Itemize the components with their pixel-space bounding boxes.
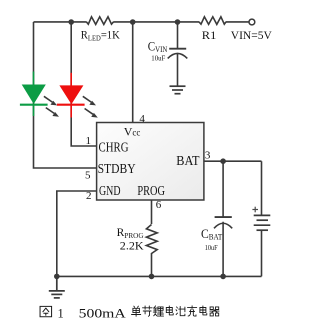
node junction CVIN [175, 19, 181, 25]
LED D2 light arrows [83, 96, 96, 105]
LED D1 light arrows [44, 96, 57, 105]
svg-text:500mA: 500mA [79, 307, 126, 321]
svg-text:2: 2 [86, 190, 92, 202]
node bottom-left junction [54, 274, 60, 280]
svg-text:3: 3 [205, 150, 211, 162]
caption 图 glyph [40, 306, 52, 316]
svg-text:GND: GND [99, 184, 121, 199]
svg-text:R1: R1 [202, 28, 217, 42]
caption 锂 glyph [153, 306, 163, 316]
svg-text:2.2K: 2.2K [120, 239, 144, 253]
wire green LED branch to STDBY [34, 22, 97, 168]
ground under CVIN [170, 86, 186, 94]
wire red LED branch to CHRG [71, 22, 96, 146]
node BAT junction [220, 158, 226, 164]
wire PROG pin 6 stem [151, 200, 153, 276]
caption 电 glyph [166, 306, 173, 315]
caption 池 glyph [176, 306, 185, 315]
svg-text:10uF: 10uF [205, 244, 218, 252]
svg-text:RLED=1K: RLED=1K [81, 27, 120, 42]
wire bottom rail [57, 275, 262, 277]
svg-text:1: 1 [58, 307, 64, 321]
svg-text:CVIN: CVIN [148, 39, 168, 55]
battery plus sign [252, 207, 258, 213]
node RPROG bottom junction [149, 274, 155, 280]
IC U1 box [97, 123, 204, 201]
resistor RPROG [146, 225, 157, 254]
capacitor CVIN plates [169, 48, 186, 50]
caption 单 glyph [132, 306, 141, 316]
caption 器 glyph [210, 307, 219, 316]
caption 节 glyph [143, 306, 153, 316]
node junction red LED [68, 19, 74, 25]
svg-text:VIN=5V: VIN=5V [231, 28, 272, 42]
svg-text:STDBY: STDBY [98, 162, 136, 177]
wire Vcc pin 4 [132, 22, 134, 123]
caption 电 glyph (second) [200, 306, 207, 315]
svg-text:CHRG: CHRG [99, 141, 129, 156]
ground bottom-left [49, 276, 65, 298]
node CBAT bottom junction [220, 274, 226, 280]
capacitor CBAT plates [215, 216, 232, 218]
svg-text:1: 1 [86, 135, 92, 147]
wire BAT pin 3 [204, 160, 262, 162]
svg-text:Vcc: Vcc [124, 124, 141, 138]
resistor RLED [86, 17, 113, 25]
svg-text:CBAT: CBAT [201, 226, 222, 242]
wire CVIN stem [177, 22, 179, 86]
svg-text:4: 4 [139, 113, 145, 125]
wire battery branch [261, 161, 263, 276]
node junction Vcc [130, 19, 136, 25]
caption 充 glyph [188, 306, 197, 316]
svg-text:BAT: BAT [176, 154, 200, 169]
svg-text:10uF: 10uF [151, 55, 165, 63]
capacitor CBAT stem [222, 161, 224, 276]
terminal VIN=5V circle [249, 19, 255, 25]
battery BT1 [254, 215, 271, 230]
svg-text:6: 6 [156, 199, 162, 211]
LED D2 red [57, 73, 85, 118]
wire GND pin 2 [57, 191, 97, 276]
wire top rail [34, 21, 250, 23]
resistor R1 [199, 17, 226, 25]
svg-text:PROG: PROG [137, 184, 165, 199]
LED D1 green [20, 72, 48, 117]
svg-text:5: 5 [85, 170, 91, 182]
